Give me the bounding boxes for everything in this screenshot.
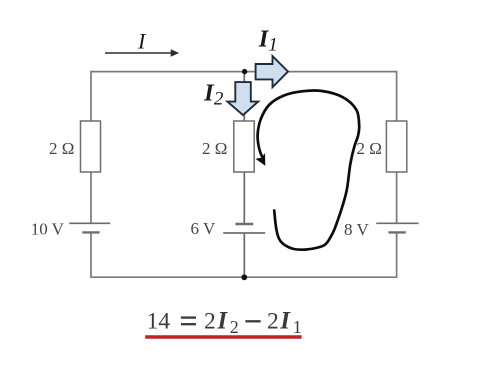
wire: middle branch vertical xyxy=(243,72,245,278)
label I1 xyxy=(258,25,278,55)
svg-text:1: 1 xyxy=(293,317,302,337)
node A (top junction dot) xyxy=(242,69,247,74)
svg-text:6 V: 6 V xyxy=(191,219,216,238)
wire: right branch vertical xyxy=(396,71,398,278)
loop arrowhead xyxy=(255,153,265,166)
current arrow I (top-left) xyxy=(105,49,179,57)
equation 14 = 2I2 - 2I1 xyxy=(147,308,302,338)
svg-text:I: I xyxy=(216,308,228,335)
svg-text:2: 2 xyxy=(204,309,216,335)
red underline xyxy=(145,335,301,338)
svg-text:2: 2 xyxy=(267,309,279,335)
block arrow I2 (down-pointing, light blue) xyxy=(227,82,258,115)
battery V3 (8 V, right) xyxy=(376,223,418,232)
svg-text:14: 14 xyxy=(147,309,171,335)
battery V2 (6 V, middle) xyxy=(223,224,265,233)
svg-text:I: I xyxy=(279,308,291,335)
minus sign xyxy=(245,320,260,322)
svg-text:2 Ω: 2 Ω xyxy=(357,139,382,158)
svg-text:2: 2 xyxy=(214,88,224,109)
loop direction arrow (hand-drawn counterclockwise loop) xyxy=(255,90,359,249)
label I2 xyxy=(203,80,224,110)
svg-text:8 V: 8 V xyxy=(344,220,369,239)
svg-text:2 Ω: 2 Ω xyxy=(202,139,227,158)
wire: top horizontal xyxy=(91,71,397,73)
node B (bottom junction dot) xyxy=(241,274,247,280)
wire: left branch vertical xyxy=(90,71,92,278)
wire: bottom horizontal xyxy=(91,276,397,278)
svg-text:2 Ω: 2 Ω xyxy=(49,139,74,158)
svg-text:2: 2 xyxy=(230,317,239,337)
resistor R1 (left 2 ohm) xyxy=(81,121,101,172)
battery V1 (10 V, left) xyxy=(69,223,110,232)
resistor R2 (middle 2 ohm) xyxy=(234,121,254,172)
resistor R3 (right 2 ohm) xyxy=(386,121,406,172)
svg-text:1: 1 xyxy=(268,35,278,56)
svg-text:10 V: 10 V xyxy=(31,220,65,239)
block arrow I1 (right-pointing, light blue) xyxy=(256,56,288,87)
